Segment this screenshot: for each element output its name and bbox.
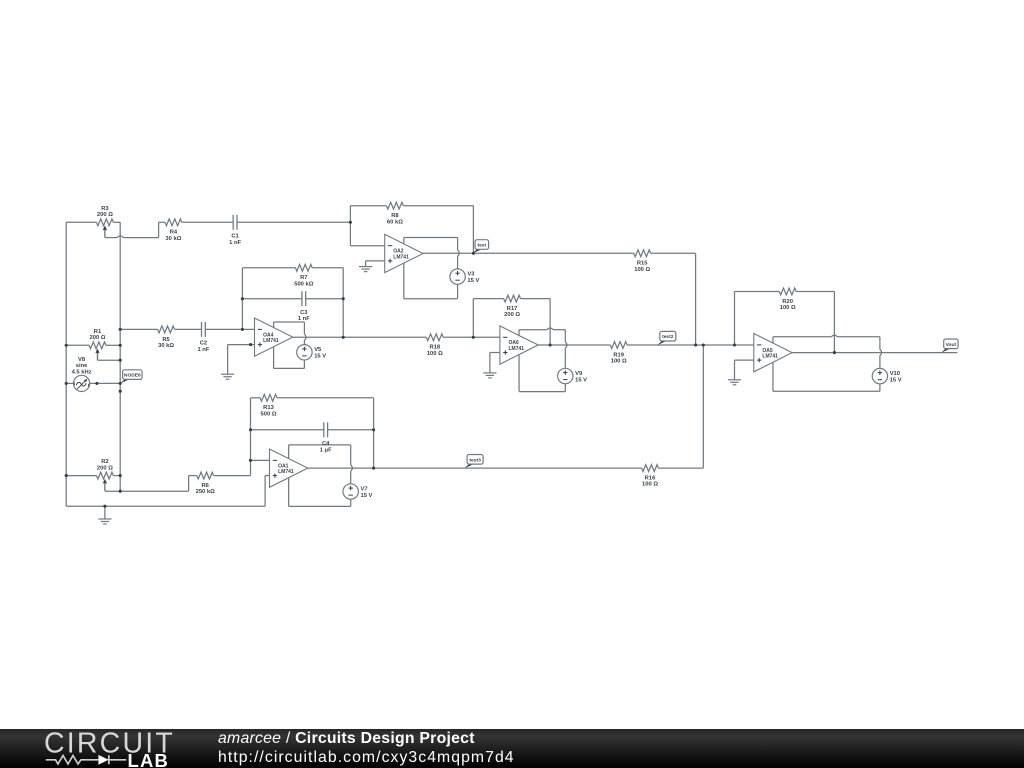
junction rail mid	[119, 390, 122, 393]
svg-text:1 nF: 1 nF	[298, 316, 310, 322]
junction rail-R2 left	[65, 474, 68, 477]
op-amp OA4	[255, 318, 293, 356]
hop V3 wire over output	[458, 250, 460, 256]
svg-text:V7: V7	[361, 486, 368, 492]
svg-text:sine: sine	[76, 363, 88, 369]
svg-text:15 V: 15 V	[361, 493, 373, 499]
svg-text:C2: C2	[200, 341, 207, 347]
wire C3 bus	[242, 298, 302, 300]
svg-text:R19: R19	[613, 352, 624, 358]
junction rail-R1 left	[65, 344, 68, 347]
hop V7 wire over output	[351, 465, 353, 471]
svg-text:4.5 kHz: 4.5 kHz	[72, 369, 92, 375]
junction V8 right	[95, 382, 98, 385]
ground OA5	[728, 360, 741, 385]
resistor R15	[634, 250, 651, 273]
flag Vout	[941, 339, 958, 353]
svg-text:200 Ω: 200 Ω	[504, 312, 520, 318]
resistor R8	[387, 202, 404, 225]
wire OA2 power loop	[403, 238, 405, 244]
wire R1 bus	[66, 344, 89, 346]
svg-text:200 Ω: 200 Ω	[97, 212, 113, 218]
wire OA1 noninv	[265, 475, 269, 477]
flag test2	[657, 331, 675, 345]
wire OA6 noninv gnd	[490, 352, 500, 354]
resistor R19	[610, 342, 627, 365]
wire OA5 output bus	[792, 352, 957, 354]
wire C4 bus	[251, 429, 324, 431]
svg-text:60 kΩ: 60 kΩ	[387, 219, 403, 225]
ground OA4	[221, 345, 234, 380]
svg-text:100 Ω: 100 Ω	[427, 351, 443, 357]
resistor R5	[158, 326, 175, 349]
svg-text:V9: V9	[575, 371, 583, 377]
svg-text:15 V: 15 V	[314, 354, 326, 360]
wire R13 bus	[251, 397, 261, 399]
svg-text:V5: V5	[314, 347, 322, 353]
wire OA1 inv input	[250, 398, 252, 476]
voltage source V10	[872, 368, 902, 383]
junction R8-OA2 out	[472, 252, 475, 255]
svg-text:100 Ω: 100 Ω	[642, 482, 658, 488]
junction R7 left-input	[241, 328, 244, 331]
voltage source V7	[343, 484, 373, 499]
junction R7 right-C3	[342, 297, 345, 300]
op-amp OA6	[500, 326, 538, 364]
junction rail-R1 wiper	[119, 359, 122, 362]
junction R13-OA1 out	[372, 467, 375, 470]
wire OA6 power loop	[518, 330, 520, 336]
svg-text:C4: C4	[322, 441, 330, 447]
svg-text:500 Ω: 500 Ω	[261, 411, 277, 417]
junction rail-R5	[119, 328, 122, 331]
wire R3 top bus	[66, 221, 96, 223]
resistor R2 (pot)	[97, 459, 114, 479]
wire OA2 inv input	[349, 206, 351, 246]
svg-text:C1: C1	[231, 234, 239, 240]
svg-text:1 nF: 1 nF	[229, 240, 241, 246]
svg-text:LM741: LM741	[278, 469, 294, 475]
wire ground rail	[66, 505, 265, 507]
resistor R13	[260, 394, 277, 417]
hop V9 wire over output	[565, 342, 567, 348]
svg-text:15 V: 15 V	[467, 278, 479, 284]
wire left rail	[65, 222, 67, 506]
capacitor C2	[197, 322, 209, 353]
junction rail-R1 right	[119, 344, 122, 347]
svg-text:V10: V10	[890, 371, 900, 377]
wire V8 terminals	[66, 382, 73, 384]
ground OA6	[483, 353, 496, 378]
svg-text:100 Ω: 100 Ω	[634, 267, 650, 273]
wire R4-C1 bus	[159, 221, 165, 223]
voltage source V3	[450, 269, 480, 284]
svg-text:R2: R2	[101, 459, 108, 465]
wire R20 loop	[734, 292, 736, 346]
flag test	[473, 240, 489, 254]
svg-text:1 μF: 1 μF	[320, 447, 332, 453]
resistor R20	[779, 288, 796, 311]
wire R7 loop	[242, 267, 295, 269]
junction rail-R2 wiper	[119, 490, 122, 493]
junction R16-OA5 bus	[702, 343, 705, 346]
resistor R4	[165, 219, 182, 242]
resistor R6	[196, 472, 216, 495]
svg-text:R18: R18	[429, 345, 440, 351]
svg-text:LM741: LM741	[393, 255, 409, 261]
svg-text:NODE6: NODE6	[124, 373, 141, 379]
junction ground rail	[103, 505, 106, 508]
svg-text:1 nF: 1 nF	[197, 347, 209, 353]
flag NODE6	[120, 370, 142, 384]
svg-text:500 kΩ: 500 kΩ	[294, 281, 314, 287]
wire OA2 output bus	[423, 252, 634, 254]
svg-text:100 Ω: 100 Ω	[611, 359, 627, 365]
wire R5-C2 bus	[120, 328, 158, 330]
svg-text:R5: R5	[162, 337, 170, 343]
junction C4 left	[249, 428, 252, 431]
svg-text:test: test	[477, 243, 486, 249]
hop OA5 power over R20	[831, 335, 837, 337]
svg-text:R8: R8	[391, 213, 399, 219]
svg-text:LM741: LM741	[762, 354, 778, 360]
svg-text:R3: R3	[101, 206, 109, 212]
svg-text:200 Ω: 200 Ω	[90, 335, 106, 341]
wire OA6 output bus	[538, 344, 610, 346]
voltage source V9	[558, 368, 588, 383]
footer text	[218, 730, 515, 767]
hop V5 wire over output	[304, 334, 306, 340]
svg-text:C3: C3	[300, 310, 308, 316]
capacitor C4	[320, 422, 332, 453]
svg-text:V3: V3	[467, 272, 475, 278]
svg-text:250 kΩ: 250 kΩ	[196, 489, 216, 495]
wire R8 bus	[350, 205, 386, 207]
junction R7 right-output	[342, 336, 345, 339]
resistor R7	[294, 264, 314, 287]
wire R3 wiper bus	[104, 230, 106, 238]
svg-text:30 kΩ: 30 kΩ	[158, 343, 174, 349]
wire OA5 noninv gnd	[735, 359, 754, 361]
wire R2 bus	[66, 475, 96, 477]
junction rail-R2 right	[119, 474, 122, 477]
resistor R16	[642, 465, 659, 488]
junction rail-V8 left	[65, 382, 68, 385]
svg-text:R7: R7	[300, 275, 307, 281]
svg-text:R17: R17	[507, 306, 518, 312]
wire main rail	[119, 222, 121, 491]
svg-text:V8: V8	[78, 357, 86, 363]
flag test3	[465, 455, 483, 469]
wire OA1 output bus	[308, 467, 642, 469]
resistor R3 (pot)	[97, 206, 114, 226]
wire R1 wiper	[97, 351, 99, 360]
svg-text:R1: R1	[94, 329, 102, 335]
voltage source V8 (sine)	[74, 375, 90, 391]
svg-text:LM741: LM741	[263, 338, 279, 344]
wire OA2 noninv	[366, 260, 385, 262]
junction R15-OA5 bus	[694, 343, 697, 346]
svg-text:R20: R20	[782, 299, 793, 305]
svg-text:LM741: LM741	[509, 346, 525, 352]
svg-text:R6: R6	[201, 483, 209, 489]
junction R17 right-OA6 out	[549, 343, 552, 346]
svg-text:Vout: Vout	[946, 342, 957, 348]
junction C1-R8	[349, 221, 352, 224]
wire R16 riser	[702, 345, 704, 468]
hop V10 wire over output	[880, 350, 882, 356]
footer bar	[0, 729, 1024, 768]
op-amp OA2	[385, 234, 423, 272]
svg-text:100 Ω: 100 Ω	[780, 305, 796, 311]
svg-text:R15: R15	[637, 261, 648, 267]
resistor R18	[426, 334, 443, 357]
junction R7 left-C3	[241, 297, 244, 300]
junction OA4 noninv	[249, 343, 252, 346]
wire R17 loop	[472, 299, 474, 338]
svg-text:15 V: 15 V	[575, 377, 587, 383]
ground rail gnd	[98, 506, 111, 524]
CircuitLab logo	[0, 729, 200, 768]
svg-text:R13: R13	[263, 405, 274, 411]
svg-text:15 V: 15 V	[890, 377, 902, 383]
wire R2 wiper bus	[104, 482, 106, 491]
wire R6 bus	[189, 475, 197, 477]
svg-text:200 Ω: 200 Ω	[97, 465, 113, 471]
voltage source V5	[297, 345, 327, 360]
svg-text:LAB: LAB	[128, 750, 170, 768]
svg-text:test3: test3	[469, 457, 481, 463]
junction C4 right	[372, 428, 375, 431]
wire OA5 power loop	[772, 337, 774, 343]
capacitor C1	[229, 215, 241, 246]
junction R17 left-bus	[472, 336, 475, 339]
ground OA2	[359, 261, 372, 272]
wire OA1 power loop	[288, 445, 290, 459]
svg-text:R4: R4	[170, 230, 178, 236]
junction R20 right-OA5 out	[833, 351, 836, 354]
op-amp OA5	[754, 334, 792, 372]
op-amp OA1	[270, 449, 308, 487]
junction rail-NODE6	[119, 382, 122, 385]
svg-text:test2: test2	[662, 334, 674, 340]
wire OA4 power loop	[273, 322, 275, 328]
hop OA6 power over R17	[547, 328, 553, 330]
svg-text:30 kΩ: 30 kΩ	[165, 236, 181, 242]
wire OA4 noninv gnd	[228, 344, 255, 346]
resistor R17	[504, 295, 521, 318]
hop wiper bus over rail	[117, 236, 123, 238]
junction R20 left-OA5 bus	[733, 343, 736, 346]
junction OA1 inv node	[249, 459, 252, 462]
resistor R1 (pot)	[89, 329, 106, 349]
wire OA4 output bus	[293, 336, 427, 338]
capacitor C3	[298, 291, 310, 322]
svg-text:R16: R16	[645, 476, 656, 482]
